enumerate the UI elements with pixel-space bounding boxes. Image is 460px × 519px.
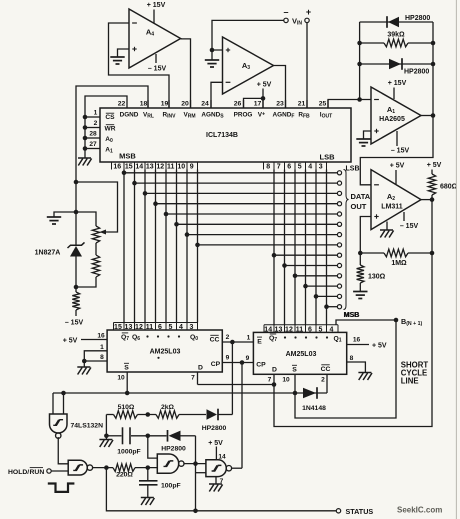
svg-text:9: 9 — [190, 164, 194, 171]
gate U4D clock driver — [206, 460, 226, 477]
diode HP2800 top (cathode left) — [360, 21, 433, 23]
svg-text:28: 28 — [89, 131, 97, 138]
svg-text:10: 10 — [117, 375, 125, 382]
svg-text:16: 16 — [113, 164, 121, 171]
svg-text:23: 23 — [276, 101, 284, 108]
wire gate A output to gate B input — [58, 437, 68, 464]
svg-text:4: 4 — [179, 324, 183, 331]
wire A2 + input — [360, 217, 371, 254]
ground A1 + input — [364, 131, 372, 139]
IC U2 AM25L03 (MSB register) — [107, 330, 222, 372]
right register pin7 D input — [273, 374, 275, 384]
wire A3 output to AGNDF pin 23 — [274, 66, 286, 109]
svg-text:– 15V: – 15V — [65, 320, 84, 327]
svg-text:25: 25 — [319, 101, 327, 108]
left register top pin cells — [114, 322, 199, 324]
pin 21 stub — [306, 100, 308, 108]
svg-text:Q6: Q6 — [132, 334, 140, 342]
svg-text:MSB: MSB — [119, 152, 136, 161]
gate U4B HOLD/RUN gate — [68, 460, 87, 475]
right register pin8 ground — [347, 362, 366, 373]
wire status line — [106, 468, 336, 511]
resistor 39k — [360, 42, 384, 44]
svg-text:12: 12 — [135, 324, 143, 331]
svg-text:+ 5V: + 5V — [257, 82, 272, 89]
svg-text:4: 4 — [329, 327, 333, 334]
svg-text:+ 5V: + 5V — [208, 440, 223, 447]
svg-text:AM25L03: AM25L03 — [286, 351, 317, 358]
svg-text:RFB: RFB — [298, 112, 310, 120]
svg-text:1: 1 — [100, 344, 104, 351]
svg-text:LINE: LINE — [401, 377, 419, 386]
wire A1 output to A2 - input — [360, 116, 433, 185]
pin 23 stub — [285, 100, 287, 108]
svg-text:8: 8 — [266, 164, 270, 171]
svg-text:13: 13 — [146, 164, 154, 171]
wire A1 output — [421, 115, 433, 117]
svg-text:8: 8 — [100, 354, 104, 361]
svg-text:+ 5V: + 5V — [63, 337, 78, 344]
svg-text:Q7: Q7 — [269, 335, 277, 343]
svg-text:26: 26 — [234, 101, 242, 108]
ground DAC digital — [78, 157, 91, 159]
svg-text:1: 1 — [247, 335, 251, 342]
pin 19 stub — [168, 100, 170, 108]
wire feedback vertical to gate C output and status line — [195, 436, 197, 511]
svg-text:+ 5V: + 5V — [390, 163, 405, 170]
right register pin2 CC stub — [326, 374, 328, 393]
wire gate D lower input from status line — [196, 472, 206, 474]
op-amp A1 HA2605 — [371, 87, 421, 144]
svg-text:CS: CS — [105, 114, 115, 121]
svg-text:17: 17 — [254, 101, 262, 108]
svg-text:3: 3 — [319, 164, 323, 171]
ground 1000pF node — [105, 436, 107, 440]
svg-text:2kΩ: 2kΩ — [161, 404, 175, 411]
svg-text:9: 9 — [246, 355, 250, 362]
ground A4 + input — [118, 49, 130, 57]
pin 17 stub — [262, 100, 264, 108]
svg-text:AGNDF: AGNDF — [273, 112, 295, 120]
DAC left pins CS WR A0 A1 — [85, 116, 100, 118]
op-amp A3 — [223, 37, 274, 94]
svg-text:11: 11 — [167, 164, 175, 171]
diode HP2800 (feedback, cathode left) — [148, 435, 167, 437]
svg-text:14: 14 — [218, 453, 226, 460]
svg-text:A1: A1 — [105, 147, 113, 155]
svg-text:130Ω: 130Ω — [368, 274, 386, 281]
svg-text:E: E — [257, 339, 262, 346]
capacitor 1000pF — [106, 435, 121, 437]
svg-text:DGND: DGND — [120, 112, 139, 119]
svg-text:24: 24 — [201, 101, 209, 108]
pin 18 stub — [147, 100, 149, 108]
wire gate C output — [184, 463, 206, 465]
svg-text:3: 3 — [189, 324, 193, 331]
svg-text:5: 5 — [318, 327, 322, 334]
svg-text:+: + — [306, 7, 311, 17]
wire A4 feedback from RINV pin 19 — [109, 23, 170, 108]
wire S line — [53, 392, 295, 394]
wire CC node down to timing network — [231, 342, 233, 415]
svg-text:6: 6 — [158, 324, 162, 331]
svg-text:S: S — [124, 365, 129, 372]
wire feedback network right rail — [432, 22, 434, 116]
svg-text:+ 15V: + 15V — [147, 2, 166, 9]
svg-text:100pF: 100pF — [161, 483, 181, 490]
svg-text:VRL: VRL — [143, 112, 154, 120]
svg-text:13: 13 — [125, 324, 133, 331]
wire gate B output line with 220 ohm — [92, 467, 113, 469]
svg-text:6: 6 — [287, 164, 291, 171]
svg-text:1: 1 — [94, 110, 98, 117]
wire A3 + input / VIN- — [212, 20, 284, 50]
pin 7 ground gate D — [215, 477, 217, 484]
svg-text:220Ω: 220Ω — [116, 472, 133, 479]
data bus vertical wires LSB group — [273, 170, 275, 325]
wire CP node down to clock gate output — [241, 363, 243, 469]
right register top pin cells — [264, 324, 338, 326]
DAC bottom pin row MSB group — [111, 162, 113, 170]
brace DATA OUT — [344, 170, 349, 310]
right register pin10 S stub — [294, 374, 296, 393]
svg-text:DATA: DATA — [351, 192, 371, 201]
svg-text:11: 11 — [296, 327, 304, 334]
wire feedback network left rail — [359, 22, 361, 100]
svg-text:HP2800: HP2800 — [405, 15, 430, 22]
svg-text:1N4148: 1N4148 — [302, 405, 326, 412]
svg-text:1MΩ: 1MΩ — [391, 260, 407, 267]
right register pin16 +5V — [347, 344, 369, 346]
gate U4C oscillator gate — [157, 454, 178, 473]
svg-text:7: 7 — [191, 375, 195, 382]
IC U1 ICL7134B DAC — [100, 108, 351, 162]
svg-text:+ 5V: + 5V — [372, 342, 387, 349]
svg-text:OUT: OUT — [351, 202, 367, 211]
wire D line between registers — [198, 384, 275, 386]
ground A3 + input — [211, 50, 213, 60]
svg-text:16: 16 — [97, 333, 105, 340]
svg-text:10: 10 — [177, 164, 185, 171]
svg-text:19: 19 — [161, 101, 169, 108]
zener 1N827A — [75, 212, 77, 245]
wire gate C upper input from 1000pF node — [148, 436, 158, 458]
svg-text:680Ω: 680Ω — [440, 184, 458, 191]
terminal HOLD/RUN — [47, 469, 51, 473]
svg-text:HP2800: HP2800 — [202, 425, 227, 432]
wire A4 output to VRM pin 20 — [181, 39, 191, 108]
svg-text:–: – — [283, 7, 288, 17]
gate U4A 74LS132N (vertical) — [52, 393, 54, 414]
op-amp A4 — [129, 9, 181, 68]
timing line 510 / 2k / HP2800 — [106, 414, 113, 416]
wire gate D output to CP line — [231, 467, 242, 469]
svg-text:12: 12 — [156, 164, 164, 171]
data bus vertical wires MSB group — [123, 170, 125, 323]
svg-text:AM25L03: AM25L03 — [150, 349, 181, 356]
svg-text:74LS132N: 74LS132N — [71, 423, 104, 430]
pin 22 stub — [126, 100, 128, 108]
svg-text:D: D — [198, 365, 203, 372]
wire short cycle line — [295, 320, 396, 418]
svg-text:21: 21 — [298, 101, 306, 108]
svg-text:510Ω: 510Ω — [118, 404, 135, 411]
wire VIN+ to RFB pin 21 — [306, 23, 308, 108]
svg-text:2: 2 — [321, 377, 325, 384]
pin 20 stub — [190, 100, 192, 108]
wire A2 output node — [421, 199, 432, 201]
data bus staircase taps to DATA OUT terminals — [124, 172, 337, 174]
svg-text:14: 14 — [135, 164, 143, 171]
wire DGND pin22 to CS bus — [85, 96, 127, 158]
wire A2 output down to D inputs — [274, 200, 432, 427]
DAC bottom pin row LSB group — [263, 162, 265, 170]
svg-text:RINV: RINV — [162, 112, 176, 120]
svg-text:8: 8 — [350, 355, 354, 362]
wire A3 - input to AGNDS pin 24 — [211, 82, 223, 108]
ground 130 ohm — [353, 291, 367, 293]
IC U3 AM25L03 (LSB register) — [253, 332, 346, 374]
diode 1N4148 — [295, 392, 327, 394]
svg-text:CP: CP — [256, 362, 266, 369]
svg-text:7: 7 — [277, 164, 281, 171]
svg-text:Q1: Q1 — [333, 336, 341, 344]
svg-text:18: 18 — [140, 101, 148, 108]
diode HP2800 bottom (cathode right) — [360, 63, 433, 65]
wire 510 left end down to 1000pF node — [105, 415, 107, 436]
svg-text:LM311: LM311 — [381, 204, 403, 211]
svg-text:HA2605: HA2605 — [379, 116, 405, 123]
svg-text:S: S — [292, 367, 297, 374]
svg-text:5: 5 — [298, 164, 302, 171]
resistor 130 — [359, 253, 361, 265]
svg-text:RUN: RUN — [30, 469, 45, 476]
svg-text:5: 5 — [168, 324, 172, 331]
svg-text:VRM: VRM — [183, 112, 195, 120]
svg-text:HOLD/: HOLD/ — [8, 469, 29, 476]
svg-text:PROG: PROG — [234, 112, 253, 119]
left register pin10 S stub — [126, 372, 128, 393]
left register pin7 D stub — [197, 372, 199, 385]
svg-text:WR: WR — [105, 126, 116, 133]
wire pot wiper — [76, 182, 118, 232]
svg-text:LSB: LSB — [320, 153, 336, 162]
svg-text:ICL7134B: ICL7134B — [206, 132, 238, 139]
svg-text:+ 15V: + 15V — [388, 80, 407, 87]
svg-text:STATUS: STATUS — [346, 507, 374, 516]
svg-text:HP2800: HP2800 — [404, 69, 429, 76]
svg-text:A0: A0 — [105, 136, 113, 144]
svg-text:Q7: Q7 — [121, 334, 129, 342]
svg-text:22: 22 — [118, 101, 126, 108]
ground 100pF — [141, 497, 154, 499]
pin 26 stub — [243, 100, 245, 108]
pulse waveform symbol — [48, 484, 75, 492]
svg-text:LSB: LSB — [346, 166, 360, 173]
svg-text:4: 4 — [308, 164, 312, 171]
svg-text:1N827A: 1N827A — [35, 250, 61, 257]
svg-text:10: 10 — [282, 377, 290, 384]
svg-text:– 15V: – 15V — [391, 148, 410, 155]
page scan edge line — [455, 0, 457, 519]
svg-text:1000pF: 1000pF — [117, 449, 140, 456]
ground A2 — [386, 222, 388, 231]
pin 24 stub — [210, 100, 212, 108]
svg-text:20: 20 — [181, 101, 189, 108]
pin 25 stub — [327, 100, 329, 108]
svg-text:+ 5V: + 5V — [427, 162, 442, 169]
svg-text:12: 12 — [285, 327, 293, 334]
svg-text:CC: CC — [321, 366, 331, 373]
svg-text:– 15V: – 15V — [148, 66, 167, 73]
resistor below pot — [95, 243, 97, 255]
svg-text:7: 7 — [268, 377, 272, 384]
capacitor 100pF — [147, 468, 149, 480]
svg-text:– 15V: – 15V — [400, 223, 419, 230]
terminal VIN+ — [305, 18, 309, 22]
svg-text:27: 27 — [89, 141, 97, 148]
svg-text:11: 11 — [146, 324, 154, 331]
left register pins 1,8 to ground — [84, 351, 107, 361]
svg-text:Q0: Q0 — [190, 334, 198, 342]
diode HP2800 (to CC node) — [207, 409, 218, 419]
comparator A2 LM311 — [371, 170, 421, 230]
potentiometer — [76, 212, 96, 226]
terminal STATUS — [336, 509, 340, 513]
svg-text:13: 13 — [275, 327, 283, 334]
svg-text:SeekIC.com: SeekIC.com — [397, 506, 442, 515]
svg-text:D: D — [272, 367, 277, 374]
svg-text:AGNDS: AGNDS — [201, 112, 224, 120]
resistor to -15V — [75, 287, 77, 292]
svg-text:6: 6 — [308, 327, 312, 334]
svg-text:39kΩ: 39kΩ — [387, 32, 405, 39]
wire VRL pin18 to reference node — [76, 86, 148, 212]
svg-text:15: 15 — [114, 324, 122, 331]
svg-text:16: 16 — [353, 337, 361, 344]
terminal VIN- — [284, 18, 288, 22]
ground reference node — [54, 212, 76, 217]
right register pin 4 wire to MSB / B(N+1) — [336, 320, 396, 325]
svg-text:15: 15 — [125, 164, 133, 171]
svg-text:HP2800: HP2800 — [161, 446, 186, 453]
svg-text:IOUT: IOUT — [320, 112, 333, 120]
wire IOUT pin25 to A1 - input — [328, 100, 371, 109]
svg-text:MSB: MSB — [344, 312, 360, 319]
svg-text:9: 9 — [226, 355, 230, 362]
resistor 1M — [360, 252, 384, 254]
svg-text:CP: CP — [211, 361, 221, 368]
svg-text:CC: CC — [210, 337, 220, 344]
svg-text:2: 2 — [226, 334, 230, 341]
svg-text:2: 2 — [94, 120, 98, 127]
svg-text:14: 14 — [264, 327, 272, 334]
